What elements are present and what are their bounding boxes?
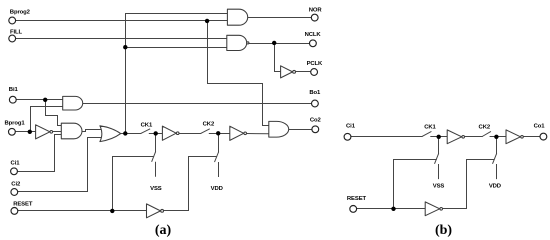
terminal RESET a	[11, 208, 18, 215]
svg-text:VDD: VDD	[489, 183, 501, 189]
wire b Co1 output	[523, 136, 540, 138]
switch VSS blade	[152, 152, 156, 162]
inverter U11 bubble	[440, 208, 443, 211]
terminal NOR	[311, 14, 318, 21]
switch b VSS blade	[435, 154, 439, 164]
wire inverter U7 output to Co2 AND gate	[247, 133, 269, 135]
junction on Bprog1 line	[28, 130, 32, 134]
wire VSS switch lower contact	[155, 162, 157, 176]
junction CK2 node b	[494, 135, 498, 139]
wire NCLK to PCLK inverter	[275, 44, 281, 72]
wire inverter U2 output to AND2	[53, 131, 62, 133]
or-gate U13	[100, 126, 121, 142]
svg-text:CK1: CK1	[141, 123, 153, 129]
wire Ci1 line and riser to AND2	[18, 135, 62, 172]
inverter U4 (PCLK)	[281, 66, 293, 78]
wire b inverter U9 output to CK2 switch	[465, 136, 483, 138]
svg-text:NCLK: NCLK	[305, 32, 322, 38]
inverter U10 bubble	[521, 136, 524, 139]
nand-gate U3 (NCLK output)	[227, 35, 247, 50]
terminal Ci1 b	[344, 133, 351, 140]
wire feedback to NAND input	[126, 47, 227, 49]
junction OR output node	[123, 131, 127, 135]
junction CK1 node a	[154, 131, 158, 135]
svg-text:RESET: RESET	[347, 196, 367, 202]
terminal Co2	[312, 126, 319, 133]
terminal Bo1	[312, 100, 319, 107]
svg-text:VDD: VDD	[211, 186, 223, 192]
wire b CK1 switch to inverter U9	[431, 136, 447, 138]
terminal Bprog1	[9, 128, 16, 135]
svg-text:CK2: CK2	[479, 125, 491, 131]
svg-text:Co1: Co1	[534, 124, 546, 130]
and-gate U5 (Bi1/Bo1)	[63, 96, 83, 110]
terminal Bprog2	[9, 17, 16, 24]
inverter U7 (after CK2)	[230, 126, 244, 140]
svg-text:Bprog2: Bprog2	[10, 9, 31, 15]
wire b VDD switch upper contact	[496, 137, 498, 154]
inverter U2 (Bprog1)	[36, 125, 50, 139]
wire b inverter U11 output riser to VDD switch	[443, 160, 495, 209]
svg-text:(a): (a)	[155, 223, 172, 238]
svg-text:VSS: VSS	[150, 186, 162, 192]
wire Co2 output	[289, 129, 312, 131]
wire RESET line	[18, 210, 147, 212]
svg-text:NOR: NOR	[309, 8, 323, 14]
wire OR output to CK1 switch	[121, 133, 141, 135]
wire Bprog2 line	[16, 20, 228, 22]
svg-text:PCLK: PCLK	[307, 61, 323, 67]
svg-text:Ci1: Ci1	[11, 161, 21, 167]
svg-text:(b): (b)	[435, 223, 452, 238]
svg-text:Bi1: Bi1	[9, 87, 19, 93]
inverter U7 bubble	[244, 132, 247, 135]
inverter U2 bubble	[50, 131, 53, 134]
wire b RESET control to VSS switch	[394, 160, 437, 209]
inverter U10 (b after CK2)	[506, 130, 521, 144]
inverter U6 (after CK1)	[162, 126, 176, 140]
terminal RESET b	[350, 206, 357, 213]
terminal Ci2	[11, 189, 18, 196]
wire CK2 switch to inverter U7	[209, 133, 230, 135]
wire CK1 switch to inverter U6	[149, 133, 162, 135]
inverter U9 bubble	[462, 136, 465, 139]
and-gate U1 (NOR output)	[227, 9, 247, 25]
terminal Ci1 a	[11, 168, 18, 175]
svg-text:Ci2: Ci2	[11, 182, 21, 188]
wire feedback top line	[126, 13, 228, 15]
wire b VSS switch upper contact	[438, 137, 440, 154]
inverter U8 (RESET buffer a)	[147, 204, 161, 218]
wire Bprog1 riser to Bi1 AND input	[31, 107, 63, 132]
junction CK2 node a	[216, 131, 220, 135]
terminal Co1	[540, 133, 547, 140]
wire inverter U6 output to CK2 switch	[179, 133, 201, 135]
inverter U9 (b after CK1)	[447, 130, 462, 144]
wire Ci2 line and riser to OR input	[18, 138, 103, 192]
nand-gate U3 bubble	[247, 42, 249, 44]
terminal FILL	[9, 35, 16, 42]
inverter U8 bubble	[161, 209, 164, 212]
svg-text:FILL: FILL	[10, 30, 23, 36]
wire AND2 output to OR input	[82, 130, 103, 132]
svg-text:RESET: RESET	[13, 202, 33, 208]
wire VDD switch lower contact	[218, 163, 220, 177]
svg-text:Co2: Co2	[310, 118, 322, 124]
wire VDD switch upper contact	[218, 134, 220, 153]
wire b VDD switch lower contact	[496, 165, 498, 179]
wire Bprog1 stub	[15, 131, 35, 133]
inverter U6 bubble	[176, 132, 179, 135]
svg-text:Bprog1: Bprog1	[5, 121, 26, 127]
switch b VDD blade	[493, 154, 497, 164]
junction NCLK node	[272, 41, 276, 45]
svg-text:VSS: VSS	[433, 183, 445, 189]
wire inverter U8 output riser to VDD switch	[164, 157, 217, 211]
switch CK1 blade	[141, 129, 150, 134]
wire NOR output	[248, 17, 311, 19]
svg-text:Ci1: Ci1	[346, 123, 356, 129]
and-gate U14 (Co2 output)	[269, 121, 289, 137]
wire b RESET line	[357, 208, 426, 210]
wire VSS switch upper contact	[155, 134, 157, 152]
junction feedback bus to NAND input	[123, 45, 127, 49]
svg-text:CK1: CK1	[424, 125, 436, 131]
terminal Bi1	[9, 96, 16, 103]
wire b Ci1 to CK1 switch	[351, 136, 422, 138]
junction RESET node b	[391, 207, 395, 211]
wire Bi1 drop to AND2 input	[46, 100, 62, 126]
inverter U4 bubble	[293, 70, 296, 73]
wire b CK2 switch to inverter U10	[490, 136, 506, 138]
junction on Bprog2 line	[205, 19, 209, 23]
wire Bprog2 branch to Co2 gate	[208, 21, 269, 126]
svg-text:Bo1: Bo1	[309, 90, 321, 96]
terminal NCLK	[310, 40, 317, 47]
wire b VSS switch lower contact	[438, 165, 440, 179]
wire FILL line	[16, 38, 227, 40]
switch b CK2 blade	[482, 132, 490, 137]
switch CK2 blade	[201, 129, 210, 134]
switch VDD blade	[215, 152, 219, 162]
inverter U11 (b RESET buffer)	[425, 202, 440, 216]
wire PCLK output	[296, 71, 311, 73]
switch b CK1 blade	[422, 132, 431, 137]
wire feedback vertical bus	[125, 14, 127, 134]
and-gate U12 (3-input AND)	[61, 123, 82, 139]
wire Bo1 output	[83, 103, 312, 105]
wire NCLK output	[249, 43, 309, 45]
junction RESET node a	[110, 209, 114, 213]
wire Bi1 line	[16, 99, 63, 101]
terminal PCLK	[311, 69, 318, 76]
junction CK1 node b	[437, 135, 441, 139]
wire RESET control to VSS switch	[113, 157, 154, 211]
junction on Bi1 line	[43, 98, 47, 102]
svg-text:CK2: CK2	[203, 121, 215, 127]
